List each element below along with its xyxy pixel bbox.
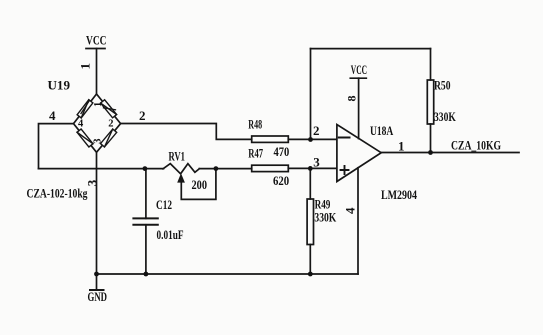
svg-text:1: 1 [398,138,405,153]
wire U19 pin 4 to left rail elbow [39,124,74,169]
wire feedback vertical up from pin 2 node [310,49,312,140]
wire R47 to non-inverting input [288,167,337,169]
wire R50 to output node [430,124,432,153]
node non-inverting input / R49 junction [308,166,313,171]
svg-text:U18A: U18A [370,124,393,138]
node ground / bridge pin 3 junction [94,272,99,277]
svg-text:620: 620 [273,174,289,188]
wire RV1 right node to R47 [199,168,251,170]
wire VCC to op-amp pin 8 [358,78,360,138]
op-amp inverting input symbol [339,137,350,139]
wire left rail to RV1 left node [39,168,164,170]
capacitor C12 top stub [145,169,147,219]
svg-text:4: 4 [343,207,358,214]
svg-text:R49: R49 [315,197,331,211]
potentiometer RV1 wiper arrowhead [177,173,185,182]
svg-text:8: 8 [345,96,359,102]
svg-text:3: 3 [84,179,99,186]
wire pin 3 node down to R49 [309,168,311,199]
svg-text:C12: C12 [156,198,172,212]
svg-text:3: 3 [92,139,103,144]
wire U19 pin 3 down to ground rail [96,152,98,274]
wire feedback top horizontal [311,48,431,50]
wire R49 to ground rail [309,245,311,275]
node inverting input / feedback junction [308,137,313,142]
op-amp U18A triangle [337,125,381,182]
wire U19 pin 2 to R48 [121,124,252,140]
gauge arrow mark top-left [81,101,90,114]
svg-text:U19: U19 [48,79,71,93]
svg-text:330K: 330K [314,211,336,225]
svg-text:1: 1 [93,102,104,107]
svg-text:1: 1 [78,63,93,70]
svg-text:4: 4 [78,118,84,129]
capacitor C12 bottom plate [133,224,157,226]
svg-text:470: 470 [274,145,290,159]
node ground / C12 junction [144,272,149,277]
svg-text:RV1: RV1 [169,149,186,163]
power flag VCC (bridge excitation) [86,48,105,50]
svg-text:GND: GND [88,290,108,304]
capacitor C12 top plate [133,217,157,219]
svg-text:2: 2 [313,123,320,138]
resistor R47 body [252,165,289,171]
svg-text:CZA-102-10kg: CZA-102-10kg [27,186,89,200]
svg-text:VCC: VCC [351,63,367,77]
svg-text:4: 4 [49,108,56,123]
svg-text:3: 3 [313,154,320,169]
svg-text:R50: R50 [434,79,451,93]
svg-text:0.01uF: 0.01uF [157,228,184,242]
ground symbol stub [96,274,98,290]
bridge sensor U19 diamond outline [74,94,121,152]
node RV1 right junction [214,166,219,171]
strain gauge element bottom-right [101,129,117,147]
power flag VCC (op-amp pin 8) [350,77,366,79]
op-amp non-inverting input plus symbol [341,166,349,174]
node output / R50 junction [428,150,433,155]
potentiometer RV1 zigzag [163,164,199,174]
node RV1 left / C12 junction [143,166,148,171]
strain gauge element top-left [77,100,93,118]
wire R48 to inverting input [288,138,337,140]
ground rail [97,273,359,275]
svg-text:CZA_10KG: CZA_10KG [451,139,501,153]
svg-text:2: 2 [139,108,146,123]
resistor R49 body [307,199,313,245]
svg-text:330K: 330K [434,110,456,124]
wire op-amp pin 4 to ground rail [357,168,359,274]
ground symbol bar [90,289,104,291]
resistor R50 body [427,80,433,124]
gauge arrow mark top-right [104,108,116,110]
node ground / R49 junction [308,272,313,277]
wire top to R50 [430,49,432,80]
wire VCC to U19 pin 1 [96,49,98,95]
resistor R48 body [252,136,289,142]
wire op-amp output [381,152,519,154]
svg-text:VCC: VCC [86,33,107,47]
capacitor C12 bottom stub [145,225,147,274]
strain gauge element bottom-left [77,129,93,147]
potentiometer RV1 wiper path [181,169,216,199]
svg-text:R48: R48 [248,118,262,132]
svg-text:2: 2 [108,118,113,129]
strain gauge element top-right [101,100,117,118]
svg-text:LM2904: LM2904 [381,188,418,202]
svg-text:200: 200 [192,178,208,192]
svg-text:R47: R47 [248,146,263,160]
